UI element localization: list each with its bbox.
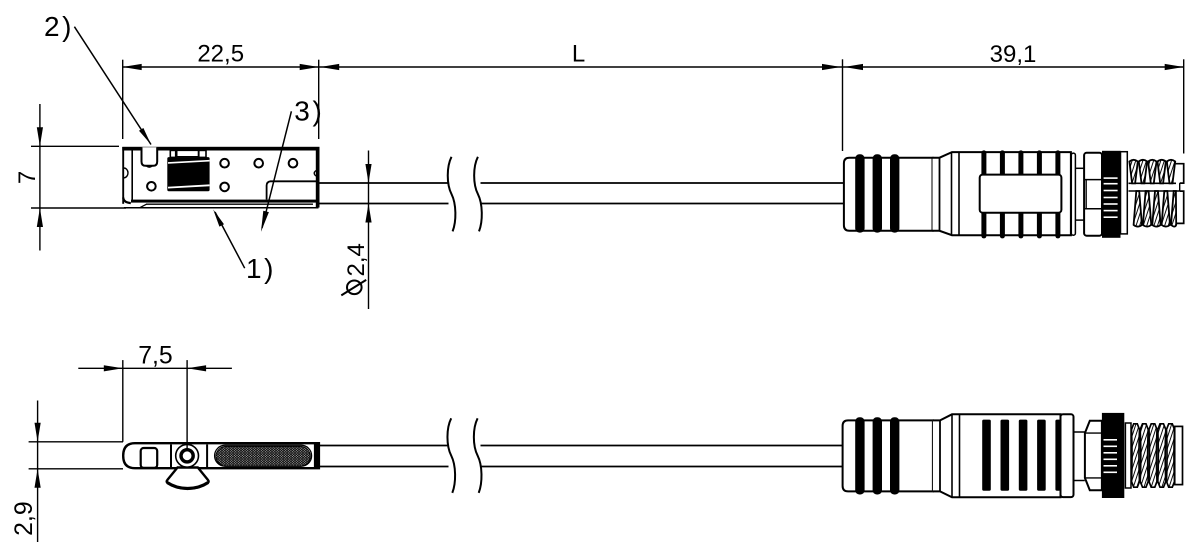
svg-text:2,4: 2,4: [343, 243, 370, 276]
svg-text:3): 3): [294, 96, 324, 127]
svg-text:2): 2): [44, 11, 74, 42]
svg-text:7,5: 7,5: [138, 342, 172, 369]
svg-text:L: L: [572, 40, 585, 67]
svg-text:1): 1): [246, 253, 276, 284]
svg-text:22,5: 22,5: [197, 40, 244, 67]
svg-text:2,9: 2,9: [11, 501, 38, 535]
svg-text:7: 7: [14, 171, 41, 184]
svg-text:39,1: 39,1: [990, 41, 1037, 68]
